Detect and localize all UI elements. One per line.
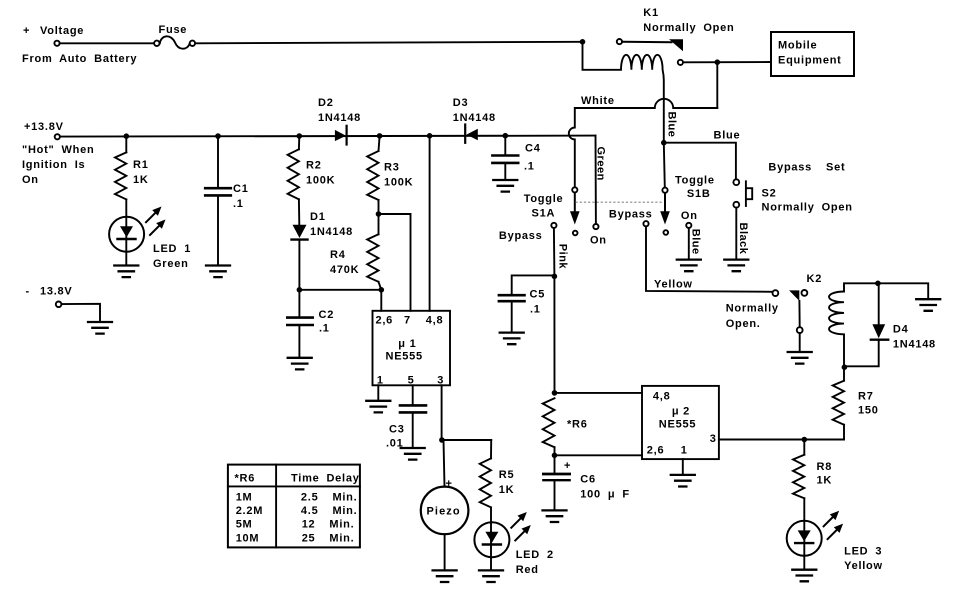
relay K1 contact — [580, 7, 735, 51]
ground S2 — [724, 260, 748, 272]
node blue junction — [661, 140, 667, 146]
diode D4 — [844, 283, 936, 366]
svg-text:LED 3: LED 3 — [844, 546, 882, 558]
svg-text:C4: C4 — [525, 143, 541, 155]
svg-text:Bypass: Bypass — [609, 209, 653, 221]
LED2 red — [474, 512, 553, 576]
green wire rail to S1A On — [594, 136, 606, 224]
svg-text:D2: D2 — [318, 97, 334, 109]
svg-text:-: - — [26, 286, 30, 298]
svg-text:S1B: S1B — [687, 188, 711, 200]
svg-text:NE555: NE555 — [659, 418, 696, 430]
svg-text:1N4148: 1N4148 — [310, 226, 353, 238]
fuse F1 — [154, 24, 195, 49]
svg-text:S1A: S1A — [532, 208, 556, 220]
svg-text:R5: R5 — [499, 469, 515, 481]
wire R6 bottom to pin 2,6 — [555, 454, 643, 456]
relay K2 coil — [829, 283, 928, 366]
ground C1 — [206, 266, 230, 278]
svg-text:+13.8V: +13.8V — [24, 121, 64, 133]
pink wire S1A bypass down — [554, 228, 569, 393]
pushbutton S2 — [733, 162, 852, 214]
svg-text:C1: C1 — [233, 183, 249, 195]
label + Voltage From Auto Battery — [22, 25, 137, 65]
wire LED1 to ground — [125, 252, 127, 266]
black wire S2 to ground — [736, 208, 749, 260]
wire pin3 junction to R5 — [442, 439, 491, 441]
svg-text:Open.: Open. — [726, 318, 761, 330]
svg-text:Voltage: Voltage — [40, 25, 84, 37]
svg-text:Yellow: Yellow — [844, 560, 883, 572]
svg-text:1: 1 — [681, 445, 688, 457]
ground C3 — [401, 448, 425, 460]
resistor R6 — [543, 398, 588, 455]
svg-text:Blue: Blue — [714, 130, 741, 142]
svg-text:Equipment: Equipment — [778, 55, 842, 67]
svg-text:R2: R2 — [306, 160, 322, 172]
svg-text:470K: 470K — [330, 264, 359, 276]
svg-text:R8: R8 — [817, 461, 833, 473]
ground C6 — [543, 510, 567, 522]
op-amp U1 NE555 box — [373, 311, 451, 387]
svg-text:+: + — [564, 460, 571, 472]
svg-text:.1: .1 — [524, 161, 535, 173]
svg-text:3: 3 — [710, 433, 717, 445]
svg-text:NE555: NE555 — [386, 351, 423, 363]
svg-text:12 Min.: 12 Min. — [302, 519, 355, 531]
resistor R3 — [367, 136, 413, 214]
wire pin3 down — [441, 385, 443, 440]
wire LED2 to ground — [490, 557, 492, 570]
relay K2 contact — [726, 273, 822, 352]
svg-text:100 μ F: 100 μ F — [580, 489, 630, 501]
diode D1 — [292, 211, 354, 290]
svg-text:100K: 100K — [384, 177, 413, 189]
svg-text:1N4148: 1N4148 — [453, 112, 496, 124]
node rail junction pin4,8 — [427, 133, 433, 139]
svg-text:Red: Red — [516, 564, 539, 576]
op-amp U2 NE555 box — [642, 386, 719, 459]
wire LED3 to ground — [803, 556, 805, 570]
ground LED2 — [479, 570, 503, 582]
ground C4 — [493, 180, 517, 192]
svg-text:C6: C6 — [580, 474, 596, 486]
wire junction to pin 2,6 column — [299, 289, 381, 291]
svg-text:D1: D1 — [310, 211, 326, 223]
svg-text:R3: R3 — [384, 162, 400, 174]
svg-text:1M: 1M — [236, 492, 253, 504]
diode D3 — [453, 97, 496, 143]
ground K2 coil — [916, 299, 940, 311]
ground LED3 — [792, 570, 816, 582]
node R3/R4 junction — [376, 211, 382, 217]
svg-text:*R6: *R6 — [235, 472, 256, 484]
ground piezo — [433, 570, 457, 582]
svg-text:On: On — [22, 174, 39, 186]
relay K1 output contact — [678, 59, 771, 108]
capacitor C4 — [492, 136, 540, 180]
svg-text:1K: 1K — [499, 484, 515, 496]
wire pin3 U2 to R7 — [719, 439, 844, 441]
svg-text:LED 2: LED 2 — [516, 549, 554, 561]
node R4 bottom junction — [379, 287, 385, 293]
wire fuse to K1 contact — [195, 42, 582, 44]
svg-text:Fuse: Fuse — [159, 24, 188, 36]
svg-text:Yellow: Yellow — [654, 279, 693, 291]
svg-text:150: 150 — [858, 405, 879, 417]
R6 time delay table — [228, 465, 360, 548]
svg-text:1K: 1K — [817, 475, 833, 487]
node K2 coil / R7 junction — [842, 364, 848, 370]
svg-text:Blue: Blue — [665, 112, 677, 138]
node R8 junction — [802, 437, 808, 443]
svg-text:μ 1: μ 1 — [398, 338, 416, 350]
ground -13.8V — [88, 322, 112, 334]
svg-text:1K: 1K — [133, 174, 149, 186]
LED3 yellow — [787, 511, 883, 572]
svg-text:.1: .1 — [530, 304, 541, 316]
toggle S1B — [609, 175, 715, 235]
svg-text:Piezo: Piezo — [427, 506, 461, 518]
svg-text:2,6: 2,6 — [376, 315, 394, 327]
node rail junction C4 — [503, 133, 509, 139]
ground K2 contact — [788, 352, 812, 364]
ground C2 — [288, 358, 312, 370]
wire junction to pin7 column — [379, 214, 411, 311]
mobile equipment box — [771, 32, 854, 76]
svg-text:Green: Green — [153, 258, 189, 270]
svg-text:On: On — [681, 210, 698, 222]
node D1/C2 junction — [297, 287, 303, 293]
svg-text:C5: C5 — [530, 289, 546, 301]
ground S1B On — [677, 260, 701, 272]
svg-text:Bypass Set: Bypass Set — [768, 162, 845, 174]
svg-text:From Auto Battery: From Auto Battery — [22, 53, 137, 65]
svg-text:Normally Open: Normally Open — [762, 202, 853, 214]
svg-text:1N4148: 1N4148 — [893, 338, 936, 350]
svg-text:.1: .1 — [319, 323, 330, 335]
node -13.8V terminal — [26, 286, 101, 322]
blue wire to S2 — [664, 130, 741, 180]
svg-text:25 Min.: 25 Min. — [302, 533, 355, 545]
white wire from mobile branch to S1A pole — [569, 95, 717, 187]
svg-text:R7: R7 — [858, 390, 874, 402]
gang dashed link S1A-S1B — [576, 201, 663, 203]
node rail junction R3 — [377, 133, 383, 139]
node D4 top junction — [875, 281, 881, 287]
resistor R8 — [793, 440, 832, 521]
node rail junction R1 — [124, 133, 130, 139]
node rail junction C1 — [215, 133, 221, 139]
blue wire S1B On to ground — [689, 228, 702, 259]
svg-text:On: On — [590, 234, 607, 246]
node +13.8V terminal — [55, 134, 60, 139]
node rail junction R2 — [297, 133, 303, 139]
relay K1 coil — [583, 42, 664, 143]
wire R6 top to pin 4,8 — [555, 392, 643, 394]
svg-text:7: 7 — [404, 315, 411, 327]
svg-text:μ 2: μ 2 — [672, 406, 690, 418]
svg-text:R4: R4 — [330, 249, 346, 261]
wire +13.8V rail — [60, 136, 596, 137]
svg-text:Ignition Is: Ignition Is — [22, 159, 85, 171]
svg-text:Normally: Normally — [726, 303, 779, 315]
svg-text:Blue: Blue — [689, 229, 701, 255]
svg-text:Time Delay: Time Delay — [291, 472, 360, 484]
svg-text:5M: 5M — [236, 519, 253, 531]
capacitor C2 — [287, 290, 334, 358]
wire rail to pin 4,8 — [429, 136, 431, 311]
resistor R5 — [480, 440, 515, 522]
ground U1 pin1 — [366, 401, 390, 413]
node pink/C5 junction — [552, 274, 558, 280]
svg-text:Normally Open: Normally Open — [643, 22, 734, 34]
svg-text:Mobile: Mobile — [778, 40, 817, 52]
svg-text:4,8: 4,8 — [653, 390, 671, 402]
svg-text:Black: Black — [737, 223, 749, 255]
svg-text:4,8: 4,8 — [426, 315, 444, 327]
node pin3 junction — [439, 437, 445, 443]
svg-text:4.5 Min.: 4.5 Min. — [301, 505, 358, 517]
label +13.8V Hot when ignition — [22, 121, 94, 186]
capacitor C3 — [386, 385, 426, 449]
svg-text:+: + — [23, 25, 30, 37]
LED1 green — [109, 207, 191, 271]
svg-text:C2: C2 — [319, 309, 335, 321]
toggle S1A — [499, 187, 607, 246]
wire pin1 U2 to ground — [682, 459, 684, 475]
svg-text:S2: S2 — [762, 187, 777, 199]
diode D2 — [318, 97, 361, 145]
ground LED1 — [114, 266, 138, 278]
resistor R1 — [115, 136, 149, 217]
svg-text:100K: 100K — [306, 175, 335, 187]
svg-text:Toggle: Toggle — [524, 193, 564, 205]
svg-text:R1: R1 — [133, 159, 149, 171]
svg-text:Pink: Pink — [557, 244, 569, 270]
wire blue junction down to S1B pole — [664, 143, 665, 188]
resistor R7 — [833, 366, 879, 439]
yellow wire S1B bypass to K2 — [646, 227, 772, 292]
svg-text:D4: D4 — [893, 324, 909, 336]
ground U2 pin1 — [671, 475, 695, 487]
capacitor C6 — [543, 455, 629, 510]
resistor R2 — [288, 136, 336, 225]
svg-text:"Hot" When: "Hot" When — [22, 144, 94, 156]
svg-text:10M: 10M — [236, 533, 260, 545]
svg-text:K2: K2 — [807, 273, 823, 285]
svg-text:Bypass: Bypass — [499, 230, 543, 242]
svg-text:D3: D3 — [453, 97, 469, 109]
resistor R4 — [330, 214, 381, 290]
capacitor C5 — [499, 275, 555, 332]
svg-text:LED 1: LED 1 — [153, 243, 191, 255]
svg-text:.1: .1 — [233, 198, 244, 210]
wire R4 junction to pin 2,6 — [380, 290, 382, 311]
svg-text:Toggle: Toggle — [675, 175, 715, 187]
svg-text:2.5 Min.: 2.5 Min. — [301, 492, 358, 504]
node R6 top junction — [552, 390, 558, 396]
svg-text:C3: C3 — [389, 423, 405, 435]
wire pin1 to ground — [377, 385, 379, 400]
svg-text:K1: K1 — [643, 7, 659, 19]
svg-text:*R6: *R6 — [567, 419, 588, 431]
piezo buzzer — [421, 440, 469, 570]
ground C5 — [500, 333, 524, 345]
svg-text:2.2M: 2.2M — [236, 505, 263, 517]
svg-text:Green: Green — [594, 147, 606, 181]
svg-text:1N4148: 1N4148 — [318, 112, 361, 124]
capacitor C1 — [205, 136, 248, 265]
wire battery to fuse — [60, 42, 154, 44]
node R6 bottom junction — [552, 453, 558, 459]
node +V battery terminal — [54, 41, 59, 46]
svg-text:White: White — [581, 95, 615, 107]
svg-text:2,6: 2,6 — [647, 445, 665, 457]
svg-text:13.8V: 13.8V — [40, 286, 73, 298]
